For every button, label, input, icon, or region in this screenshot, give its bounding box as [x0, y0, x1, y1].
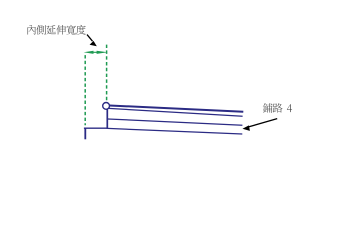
leader arrow 1 head	[90, 41, 97, 46]
road line 4	[108, 128, 243, 134]
label text2 char 鋪	[263, 103, 273, 112]
label text2 digit 4	[287, 104, 292, 112]
dashed extension line right	[106, 45, 108, 101]
label text2 char 路	[273, 103, 283, 112]
leader arrow 2 shaft	[249, 119, 278, 127]
vertical edge line	[106, 109, 108, 129]
width dimension double arrow right head	[97, 51, 108, 54]
label text1 char 側	[36, 25, 46, 35]
width dimension double arrow left head	[84, 51, 94, 54]
label text1 char 度	[76, 25, 86, 35]
label text1 char 伸	[56, 25, 66, 35]
road line 1 (thick top)	[110, 106, 244, 112]
label text1 char 內	[27, 25, 35, 35]
label text1 char 延	[47, 25, 56, 34]
step horizontal line	[84, 127, 108, 129]
node circle	[103, 103, 110, 110]
road line 2	[109, 108, 243, 116]
dashed extension line left	[84, 55, 86, 125]
leader arrow 2 head	[243, 125, 250, 130]
width dimension double arrow shaft	[90, 51, 100, 53]
leader arrow 1 shaft	[87, 35, 93, 42]
label text1 char 寬	[67, 25, 76, 35]
road line 3	[108, 119, 243, 125]
stub vertical line	[84, 128, 86, 139]
